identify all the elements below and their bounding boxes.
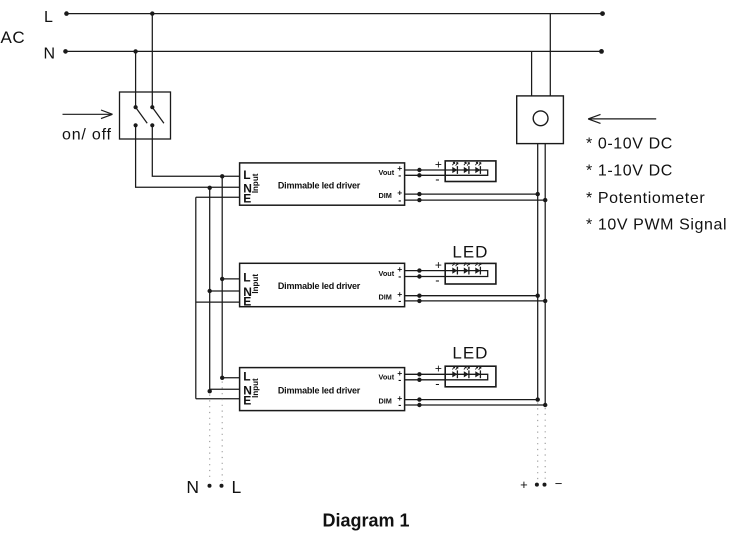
- wire L rail to dimmer: [549, 14, 551, 96]
- svg-text:Diagram 1: Diagram 1: [322, 510, 409, 530]
- svg-text:Dimmable led driver: Dimmable led driver: [278, 385, 361, 395]
- LED D12: [464, 162, 470, 174]
- wire switch pole1 to driver1 N: [136, 125, 240, 187]
- node U3 DIM+ connector: [417, 397, 421, 401]
- node L terminal: [220, 484, 224, 488]
- wire U3 Vout+ to LED string: [405, 374, 488, 380]
- svg-text:-: -: [435, 376, 439, 391]
- svg-text:* 1-10V DC: * 1-10V DC: [586, 163, 673, 180]
- wire N lead dotted: [209, 395, 211, 482]
- node U1 DIM+ bus junction: [536, 192, 540, 196]
- LED D21: [452, 263, 458, 275]
- wire DIM- bus vertical: [544, 144, 546, 405]
- node U2 DIM- bus junction: [543, 299, 547, 303]
- wire U3 DIM- to bus: [405, 404, 546, 406]
- LED D11: [452, 162, 458, 174]
- LED module 1 box: [445, 161, 496, 182]
- wire L lead dotted: [221, 382, 223, 482]
- svg-text:L: L: [44, 9, 53, 26]
- arrow to switch: [63, 110, 113, 119]
- wire DIM+ lead dotted: [537, 403, 539, 482]
- LED D32: [464, 366, 470, 378]
- svg-text:L: L: [243, 168, 250, 182]
- node U3 DIM- bus junction: [543, 403, 547, 407]
- wire U2 DIM+ to bus: [405, 295, 538, 297]
- svg-text:Input: Input: [251, 378, 260, 398]
- svg-text:-: -: [398, 171, 401, 181]
- node driver3 L junction: [220, 376, 224, 380]
- wire U1 Vout+ to LED string: [405, 170, 488, 175]
- LED D23: [475, 263, 481, 275]
- LED D13: [475, 162, 481, 174]
- wire L rail: [66, 13, 603, 15]
- switch S1 pole 1: [134, 105, 148, 127]
- svg-text:Dimmable led driver: Dimmable led driver: [278, 281, 361, 291]
- dimmable led driver U3 box: [240, 368, 405, 411]
- svg-text:-: -: [398, 400, 401, 410]
- LED D31: [452, 366, 458, 378]
- LED module 2 box: [445, 263, 496, 284]
- svg-text:LED: LED: [452, 243, 488, 262]
- node driver2 N junction: [208, 289, 212, 293]
- node DIM- terminal: [543, 483, 547, 487]
- LED D22: [464, 263, 470, 275]
- node driver2 L junction: [220, 277, 224, 281]
- arrow dim signal: [588, 114, 656, 123]
- node U2 DIM- connector: [417, 299, 421, 303]
- svg-text:DIM: DIM: [379, 396, 392, 405]
- wire N bus vertical: [209, 188, 211, 391]
- svg-text:L: L: [243, 369, 250, 383]
- svg-text:N: N: [44, 45, 56, 62]
- svg-text:Dimmable led driver: Dimmable led driver: [278, 181, 361, 191]
- node L rail right end: [600, 11, 605, 16]
- svg-text:Input: Input: [251, 173, 260, 193]
- svg-text:AC: AC: [1, 28, 26, 47]
- dimmer knob: [533, 111, 548, 126]
- svg-text:+: +: [520, 477, 528, 492]
- node N rail junction: [133, 49, 137, 53]
- LED D33: [475, 366, 481, 378]
- wire E bus vertical: [195, 197, 197, 399]
- svg-text:-: -: [398, 375, 401, 385]
- wire N rail to dimmer: [531, 51, 533, 96]
- wire driver3 E: [196, 398, 240, 400]
- node U1 DIM+ connector: [417, 192, 421, 196]
- wire driver1 E: [196, 196, 240, 198]
- svg-text:+: +: [435, 362, 442, 376]
- node U3 Vout- connector: [417, 378, 421, 382]
- wire L bus vertical: [221, 176, 223, 377]
- wire N rail: [65, 50, 602, 52]
- node U3 DIM- connector: [417, 403, 421, 407]
- wire N rail to switch: [135, 51, 137, 107]
- node U2 DIM+ bus junction: [536, 294, 540, 298]
- svg-text:+: +: [435, 258, 442, 272]
- svg-text:-: -: [398, 195, 401, 205]
- node N rail right end: [599, 49, 604, 54]
- svg-text:on/ off: on/ off: [62, 127, 112, 144]
- svg-text:DIM: DIM: [379, 293, 392, 302]
- svg-text:L: L: [243, 270, 250, 284]
- svg-text:Vout: Vout: [379, 168, 395, 177]
- node U3 Vout+ connector: [417, 372, 421, 376]
- dimmable led driver U1 box: [240, 163, 405, 205]
- node U1 DIM- connector: [417, 198, 421, 202]
- node U2 Vout- connector: [417, 274, 421, 278]
- wire L rail to switch: [151, 14, 153, 108]
- node U3 DIM+ bus junction: [536, 397, 540, 401]
- svg-text:-: -: [398, 272, 401, 282]
- wire U3 DIM+ to bus: [405, 399, 538, 401]
- node L rail junction: [150, 11, 154, 15]
- node U2 DIM+ connector: [417, 294, 421, 298]
- node N rail left end: [63, 49, 68, 54]
- wire driver2 E: [196, 301, 240, 303]
- svg-text:−: −: [555, 476, 563, 491]
- svg-text:N: N: [186, 477, 199, 497]
- node DIM+ terminal: [535, 483, 539, 487]
- svg-text:E: E: [243, 294, 251, 308]
- node N bus top junction: [208, 186, 212, 190]
- wire U1 DIM+ to bus: [405, 193, 538, 195]
- node L rail left end: [64, 11, 69, 16]
- svg-text:Vout: Vout: [379, 269, 395, 278]
- svg-text:-: -: [398, 296, 401, 306]
- svg-text:Vout: Vout: [379, 373, 395, 382]
- node U1 DIM- bus junction: [543, 198, 547, 202]
- wire driver2 L: [222, 278, 239, 280]
- node driver3 N junction: [208, 389, 212, 393]
- wire driver3 L: [222, 377, 239, 379]
- wire driver3 N: [210, 388, 240, 390]
- wire U2 DIM- to bus: [405, 300, 546, 302]
- wire DIM- lead dotted: [544, 408, 546, 481]
- wire U2 Vout+ to LED string: [405, 271, 488, 277]
- svg-text:Input: Input: [251, 274, 260, 294]
- wire driver2 N: [210, 290, 240, 292]
- svg-text:* Potentiometer: * Potentiometer: [586, 190, 705, 207]
- svg-text:* 0-10V DC: * 0-10V DC: [586, 136, 673, 153]
- svg-text:DIM: DIM: [379, 191, 392, 200]
- wire U1 DIM- to bus: [405, 199, 546, 201]
- node L bus top junction: [220, 174, 224, 178]
- switch S1 box: [120, 92, 171, 139]
- node N terminal: [208, 484, 212, 488]
- wire switch pole2 to driver1 L: [152, 125, 239, 176]
- svg-text:+: +: [435, 157, 442, 171]
- dimmer control box: [517, 96, 564, 144]
- node U1 Vout- connector: [417, 173, 421, 177]
- dimmable led driver U2 box: [240, 263, 405, 306]
- svg-text:LED: LED: [452, 344, 488, 363]
- svg-text:-: -: [435, 171, 439, 186]
- wire DIM+ bus vertical: [537, 144, 539, 400]
- svg-text:* 10V PWM Signal: * 10V PWM Signal: [586, 216, 727, 233]
- LED module 3 box: [445, 366, 496, 387]
- node U1 Vout+ connector: [417, 168, 421, 172]
- svg-text:L: L: [232, 477, 242, 497]
- svg-text:-: -: [435, 273, 439, 288]
- node U2 Vout+ connector: [417, 268, 421, 272]
- switch S1 pole 2: [150, 105, 164, 127]
